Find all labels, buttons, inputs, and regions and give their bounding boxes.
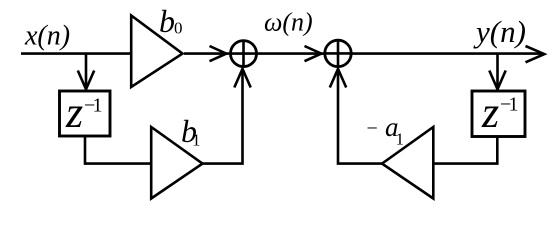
svg-text:y(n): y(n): [473, 14, 526, 49]
svg-text:1: 1: [93, 95, 103, 117]
svg-text:z: z: [65, 88, 83, 137]
arrowhead into right delay box: [489, 71, 505, 90]
svg-text:1: 1: [509, 94, 519, 116]
summing node 2 (circle with plus): [325, 40, 351, 66]
gain triangle -a1 (points left): [382, 127, 433, 199]
svg-text:b: b: [159, 3, 175, 39]
arrowhead up into summer 1: [234, 69, 250, 88]
arrowhead into left delay box: [78, 71, 94, 90]
delay block z^-1 right: [472, 91, 525, 137]
wire branch down to left delay: [85, 54, 88, 88]
wire -a1 output up to summer 2: [338, 71, 382, 164]
svg-text:0: 0: [174, 18, 183, 37]
gain triangle b1: [151, 127, 202, 199]
wire input x(n) main line: [21, 52, 131, 55]
output arrowhead: [526, 46, 545, 62]
delay block z^-1 left: [60, 91, 111, 136]
arrowhead up into summer 2: [330, 69, 346, 88]
wire right delay to -a1 triangle: [433, 137, 497, 164]
wire b1 output up to summer 1: [203, 71, 243, 164]
wire summer 2 to output y(n): [352, 52, 542, 55]
wire b0 output to summer 1: [184, 52, 240, 55]
svg-text:1: 1: [396, 130, 405, 149]
gain triangle b0: [131, 16, 182, 88]
arrowhead into summer 1: [210, 46, 227, 61]
svg-text:ω(n): ω(n): [264, 8, 313, 37]
svg-text:−: −: [367, 118, 378, 140]
wire branch down to right delay: [496, 54, 499, 88]
wire summer 1 to summer 2: [257, 52, 336, 55]
svg-text:z: z: [481, 88, 499, 137]
svg-text:x(n): x(n): [24, 21, 70, 52]
wire left delay to b1 triangle: [85, 136, 151, 164]
svg-text:1: 1: [192, 131, 201, 150]
arrowhead into summer 2: [305, 46, 322, 61]
summing node 1 (circle with plus): [231, 41, 257, 67]
